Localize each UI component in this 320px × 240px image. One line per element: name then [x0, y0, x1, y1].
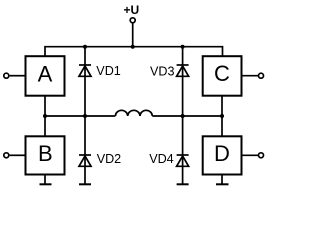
svg-text:VD3: VD3 [150, 64, 175, 78]
svg-text:B: B [38, 141, 53, 166]
svg-text:+U: +U [123, 3, 139, 17]
ground bar under box D [216, 183, 229, 185]
terminal circle output D [259, 153, 264, 158]
junction on top rail at +U [131, 45, 135, 49]
diode VD2 [79, 155, 91, 166]
junction on middle rail at VD4 [181, 114, 185, 118]
wire VD2 branch (middle rail to ground) [84, 116, 86, 184]
terminal circle input B [4, 153, 9, 158]
svg-text:C: C [214, 61, 230, 86]
junction on middle rail at VD2 [83, 114, 87, 118]
wire input terminal to box B [10, 154, 26, 156]
inductor L1 [115, 110, 152, 116]
block A [26, 56, 65, 95]
wire box C bottom to box D top [221, 96, 223, 137]
wire box D to output terminal [242, 154, 259, 156]
junction on top rail at VD3 [181, 45, 185, 49]
wire middle rail right segment [152, 115, 222, 117]
terminal circle output C [259, 73, 264, 78]
svg-text:VD1: VD1 [96, 64, 121, 78]
wire VD3 branch (top rail to middle rail) [182, 47, 184, 116]
ground bar under VD2 [79, 183, 91, 185]
wire box B bottom stub [44, 175, 46, 184]
wire box A bottom to box B top [44, 96, 46, 137]
ground bar under VD4 [177, 183, 189, 185]
block C [203, 56, 242, 95]
ground bar under box B [40, 183, 52, 185]
wire box C to output terminal [242, 75, 259, 77]
junction on middle rail at C-D [220, 114, 224, 118]
wire middle rail left segment [45, 115, 115, 117]
block D [203, 136, 242, 174]
terminal circle +U [130, 18, 135, 23]
wire top rail from box A top to box C top [45, 47, 223, 57]
diode VD1 [79, 65, 91, 76]
svg-text:VD4: VD4 [149, 152, 174, 166]
svg-text:VD2: VD2 [97, 152, 122, 166]
wire input terminal to box A [10, 75, 26, 77]
wire +U drop to top rail [132, 23, 134, 46]
diode VD4 [177, 155, 189, 166]
block B [26, 136, 65, 174]
wire VD1 branch (top rail to middle rail) [84, 47, 86, 116]
svg-text:A: A [38, 61, 53, 86]
wire box D bottom stub [221, 175, 223, 184]
wire VD4 branch (middle rail to ground) [182, 116, 184, 184]
terminal circle input A [4, 73, 9, 78]
svg-text:D: D [214, 141, 230, 166]
junction on middle rail at A-B [43, 114, 47, 118]
junction on top rail at VD1 [83, 45, 87, 49]
diode VD3 [177, 65, 189, 76]
